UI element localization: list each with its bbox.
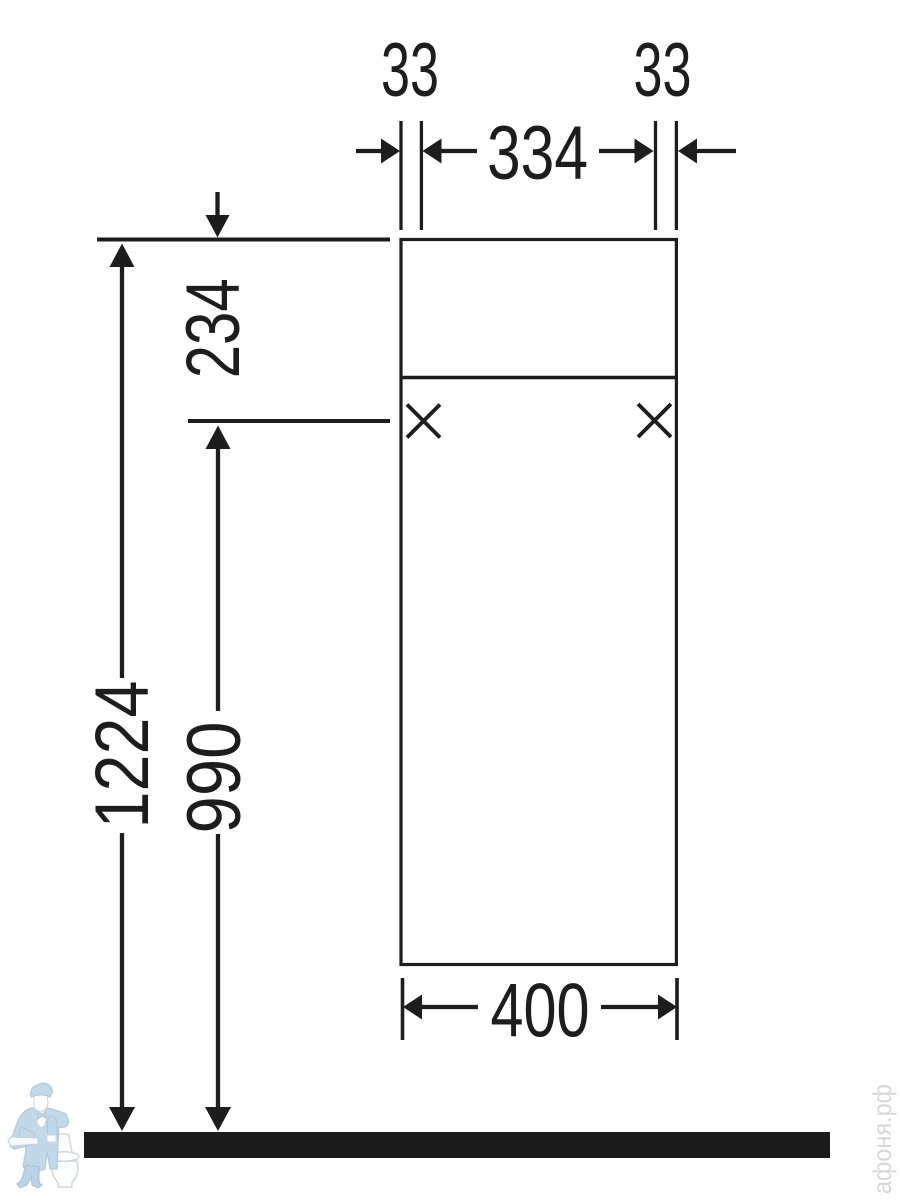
dimension arrow 334 right (points right)	[599, 139, 654, 164]
toilet seat	[49, 1152, 79, 1162]
dimension label 990 (rotated)	[172, 722, 257, 834]
shirt	[37, 1110, 47, 1128]
svg-text:33: 33	[381, 28, 439, 113]
wrench	[8, 1137, 38, 1146]
dimension line 990 upper shaft with up arrow	[206, 426, 231, 712]
hinge mark X left	[407, 405, 440, 438]
arrow pointing down at top reference line (234 top)	[206, 192, 230, 238]
dimension arrow into right edge (points left)	[678, 139, 736, 164]
dimension label 400	[491, 969, 590, 1054]
dimension label 234 (rotated)	[171, 278, 256, 378]
face	[34, 1093, 48, 1111]
top extension line: left hinge	[420, 121, 423, 230]
svg-text:990: 990	[172, 722, 257, 834]
floor bar	[84, 1132, 830, 1158]
right arm	[47, 1116, 57, 1141]
top extension line: right hinge	[654, 121, 657, 230]
svg-text:234: 234	[171, 278, 256, 378]
svg-text:400: 400	[491, 969, 590, 1054]
toilet tank	[51, 1134, 72, 1153]
dimension label 33 right	[634, 28, 692, 113]
svg-text:афоня.рф: афоня.рф	[867, 1084, 897, 1194]
dimension line 1224 upper shaft with up arrow	[110, 244, 135, 679]
extension tick 400 left	[401, 978, 405, 1040]
extension tick 400 right	[675, 978, 679, 1040]
dimension arrow into left edge (points right)	[356, 139, 400, 164]
svg-text:334: 334	[487, 111, 588, 196]
svg-text:33: 33	[634, 28, 692, 113]
cap	[31, 1083, 53, 1097]
hand cuff	[47, 1135, 56, 1142]
hinge mark X right	[638, 404, 671, 437]
toilet bowl	[52, 1161, 78, 1187]
dimension label 1224 (rotated)	[80, 681, 165, 829]
top extension line: cabinet left edge	[399, 121, 402, 230]
watermark plumber logo	[8, 1083, 79, 1188]
top extension line: cabinet right edge	[675, 121, 678, 230]
plumber body	[9, 1108, 69, 1171]
dimension line 990 lower shaft with down arrow	[205, 834, 231, 1131]
dimension label 334	[487, 111, 588, 196]
bow tie	[38, 1111, 46, 1119]
dimension arrow 334 left (points left)	[423, 139, 478, 164]
dimension label 33 left	[381, 28, 439, 113]
cabinet divider line	[401, 376, 676, 380]
dimension line 1224 lower shaft with down arrow	[109, 833, 135, 1131]
svg-text:1224: 1224	[80, 681, 165, 829]
top reference line (cabinet top level)	[97, 238, 390, 242]
left arm and wrench	[10, 1127, 36, 1149]
dimension arrow 400 right (points right)	[601, 995, 677, 1020]
boots	[17, 1165, 42, 1188]
hinge reference line (234 level)	[188, 419, 390, 423]
watermark site text	[867, 1084, 897, 1194]
cabinet outline	[401, 240, 676, 965]
dimension arrow 400 left (points left)	[403, 995, 478, 1020]
